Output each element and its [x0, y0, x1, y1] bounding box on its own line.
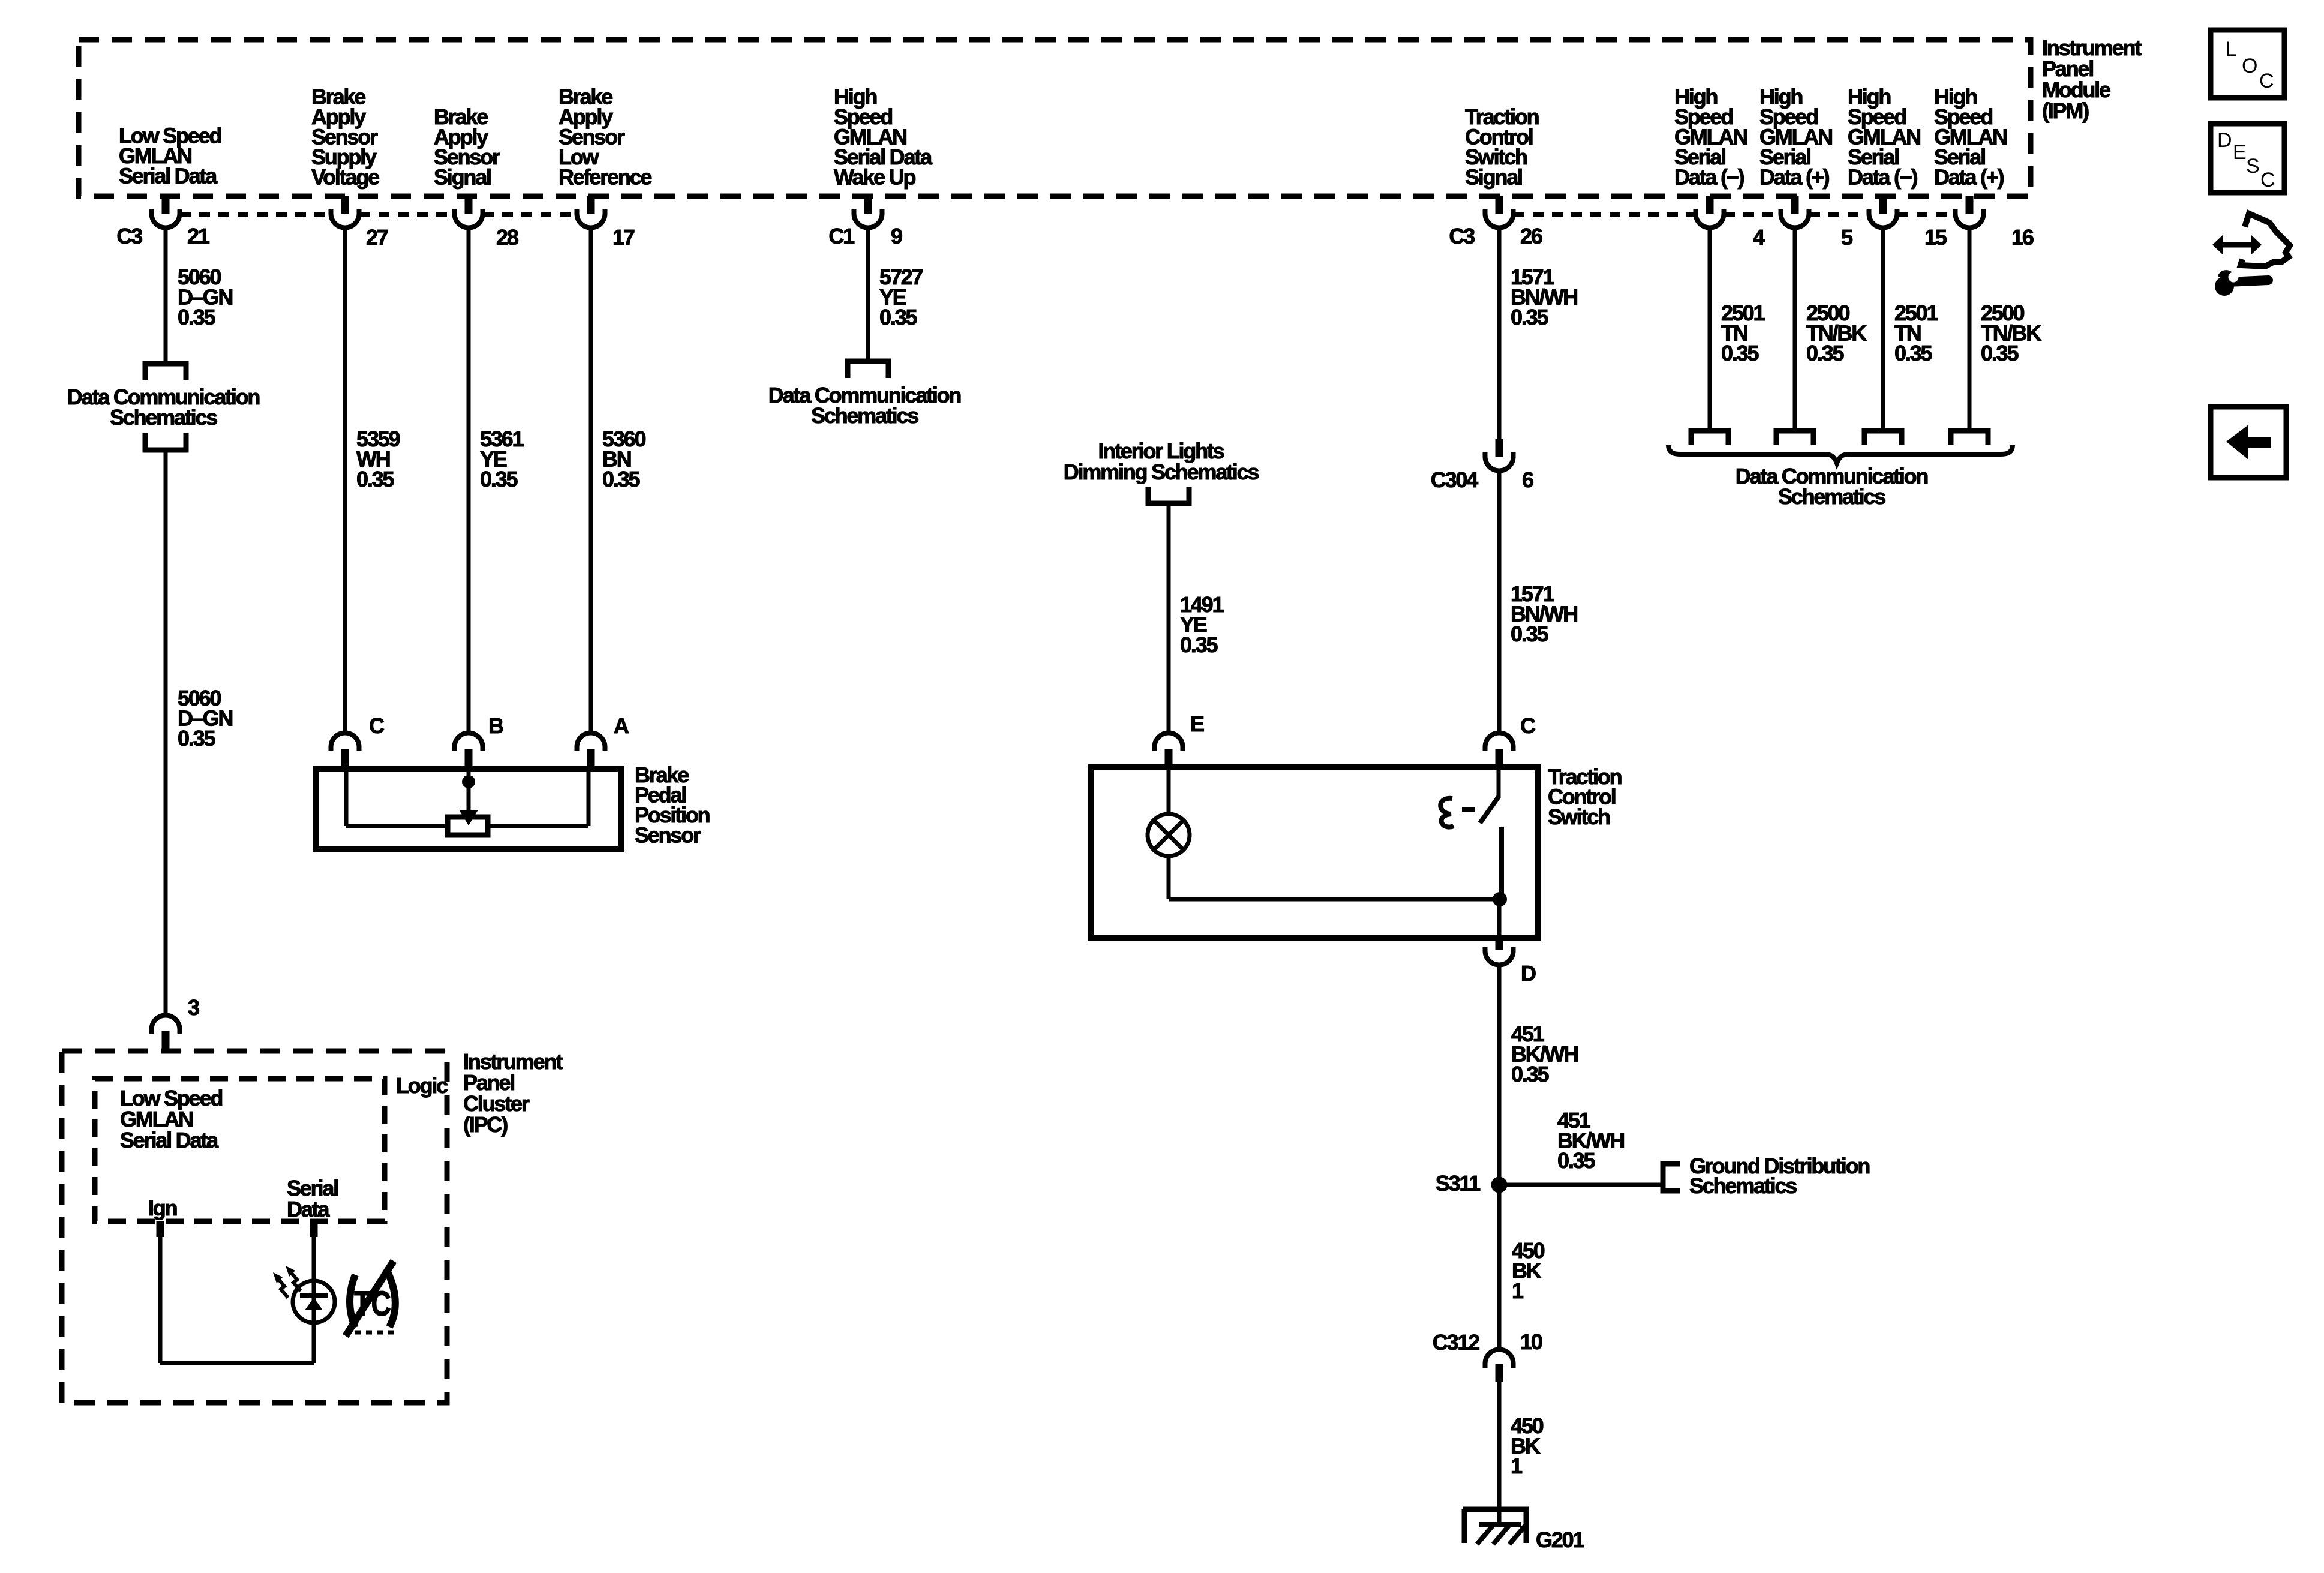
- ground symbol G201: [1463, 1507, 1529, 1512]
- off-page bracket (destination): [1951, 431, 1988, 445]
- LED indicator symbol: [293, 1281, 335, 1323]
- svg-text:Logic: Logic: [396, 1073, 448, 1098]
- svg-text:O: O: [2242, 55, 2257, 77]
- svg-text:0.35: 0.35: [1981, 341, 2019, 365]
- svg-text:C3: C3: [116, 224, 142, 248]
- svg-text:Signal: Signal: [1465, 165, 1522, 190]
- svg-text:0.35: 0.35: [178, 305, 215, 329]
- svg-text:Switch: Switch: [1548, 804, 1610, 829]
- svg-text:26: 26: [1520, 224, 1542, 248]
- svg-text:C: C: [2259, 70, 2274, 92]
- connector harness dotted line (C3 right section): [1514, 212, 1695, 217]
- svg-text:Voltage: Voltage: [311, 165, 379, 190]
- wire 5360 BN from pin 17 to BPPS pin A: [589, 228, 593, 734]
- logic box inside IPC, dashed outline: [95, 1079, 385, 1221]
- potentiometer resistive element: [448, 817, 488, 835]
- svg-text:Data (+): Data (+): [1759, 165, 1830, 190]
- wire 5060 D-GN from pin 21 to off-page reference: [164, 228, 168, 361]
- svg-text:21: 21: [187, 224, 210, 248]
- svg-text:Reference: Reference: [559, 165, 651, 190]
- logic pin Serial Data stub: [310, 1221, 318, 1237]
- switch fixed contact: [1499, 827, 1504, 899]
- off-page bracket (destination): [1864, 431, 1902, 445]
- off-page bracket (destination): [1776, 431, 1813, 445]
- svg-text:15: 15: [1924, 225, 1947, 250]
- connector pin C of switch: [1485, 733, 1514, 752]
- svg-text:(IPM): (IPM): [2042, 98, 2089, 123]
- wiper arrow: [459, 810, 478, 825]
- svg-text:Schematics: Schematics: [1778, 484, 1885, 509]
- svg-text:Schematics: Schematics: [110, 405, 217, 430]
- svg-text:0.35: 0.35: [1511, 622, 1548, 646]
- svg-text:5: 5: [1841, 225, 1853, 250]
- LED light arrows: [290, 1271, 301, 1291]
- splice S311: [1491, 1177, 1508, 1193]
- wire from Ign pin down: [158, 1237, 163, 1363]
- svg-text:Data: Data: [287, 1197, 330, 1221]
- connector pin C of BPPS: [331, 733, 359, 752]
- icon box: LOC: [2211, 30, 2284, 98]
- switch wire from pin C: [1497, 767, 1501, 798]
- wire from junction to pin D: [1497, 899, 1502, 938]
- wire 5060 D-GN continues to IPC pin 3: [164, 452, 168, 1016]
- svg-text:C312: C312: [1433, 1330, 1479, 1355]
- svg-text:D: D: [2217, 129, 2232, 152]
- svg-text:4: 4: [1753, 225, 1765, 250]
- svg-text:0.35: 0.35: [879, 305, 917, 329]
- svg-text:Data (+): Data (+): [1934, 165, 2004, 190]
- svg-text:0.35: 0.35: [480, 467, 518, 491]
- module box: Traction Control Switch: [1091, 767, 1538, 938]
- svg-text:9: 9: [891, 224, 902, 248]
- svg-text:0.35: 0.35: [1511, 1062, 1549, 1086]
- wire inside switch from pin E to lamp: [1167, 767, 1171, 816]
- module box: Instrument Panel Module (IPM), dashed outline: [79, 40, 2031, 196]
- connector pin 17 of IPM: [587, 196, 595, 214]
- junction dot inside switch: [1493, 892, 1507, 906]
- connector pin 27 of IPM: [341, 196, 349, 214]
- svg-text:16: 16: [2011, 225, 2034, 250]
- svg-text:27: 27: [366, 225, 388, 250]
- off-page reference bracket (destination): [848, 361, 888, 378]
- wire 450 BK from C312 to G201: [1497, 1382, 1502, 1524]
- svg-text:0.35: 0.35: [1557, 1148, 1595, 1173]
- connector pin D of switch: [1496, 938, 1503, 950]
- svg-text:E: E: [2233, 141, 2247, 164]
- brace grouping data communication wires: [1668, 445, 2013, 463]
- wire from lamp down and right to switch common: [1167, 854, 1171, 899]
- svg-text:Data (−): Data (−): [1848, 165, 1918, 190]
- wire 25xx TN from pin at x=3139 to data communication bus: [1881, 228, 1885, 428]
- svg-text:C3: C3: [1449, 224, 1475, 248]
- icon: data link connector symbol (arrow + vehicle + wrench): [2212, 235, 2262, 255]
- svg-text:28: 28: [496, 225, 518, 250]
- connector pin B of BPPS: [455, 733, 483, 752]
- icon box: DESC: [2211, 124, 2284, 193]
- module box: Instrument Panel Cluster (IPC), dashed outline: [62, 1051, 447, 1403]
- wire 1491 YE from dimming schematics to switch pin E: [1167, 506, 1171, 734]
- svg-text:C: C: [2260, 169, 2275, 191]
- wiper junction dot: [462, 775, 475, 788]
- svg-text:0.35: 0.35: [1806, 341, 1844, 365]
- connector harness dotted line (C3 left section): [180, 212, 331, 217]
- wire 5727 YE from pin 9 to off-page reference: [866, 228, 870, 359]
- svg-text:10: 10: [1520, 1329, 1542, 1354]
- svg-text:0.35: 0.35: [602, 467, 640, 491]
- svg-text:G201: G201: [1536, 1527, 1584, 1552]
- svg-text:0.35: 0.35: [1511, 305, 1548, 329]
- svg-text:Serial Data: Serial Data: [120, 1128, 219, 1152]
- module box: Brake Pedal Position Sensor: [316, 769, 621, 849]
- svg-text:C1: C1: [828, 224, 855, 248]
- connector C3 pin 26 of IPM: [1496, 196, 1503, 214]
- logic pin Ign stub: [157, 1221, 164, 1237]
- svg-text:1: 1: [1512, 1278, 1524, 1303]
- wire joining Ign and LED branch: [160, 1361, 314, 1365]
- svg-text:A: A: [614, 713, 629, 738]
- svg-text:B: B: [488, 713, 503, 738]
- svg-text:L: L: [2226, 38, 2237, 61]
- svg-text:0.35: 0.35: [1721, 341, 1759, 365]
- off-page source bracket: [1148, 487, 1189, 503]
- connector pin A of BPPS: [577, 733, 605, 752]
- svg-text:Schematics: Schematics: [1689, 1173, 1797, 1198]
- svg-text:Data (−): Data (−): [1674, 165, 1744, 190]
- potentiometer low ref wire inside BPPS: [587, 769, 591, 826]
- svg-text:Ign: Ign: [148, 1196, 177, 1220]
- svg-text:0.35: 0.35: [178, 726, 215, 751]
- connector pin 5 of IPM: [1791, 196, 1799, 214]
- connector C3 pin 21 of IPM: [162, 196, 170, 214]
- connector C1 pin 9 of IPM: [864, 196, 872, 214]
- svg-text:3: 3: [188, 995, 199, 1020]
- svg-text:0.35: 0.35: [1894, 341, 1932, 365]
- svg-text:C: C: [369, 713, 385, 738]
- connector pin E of switch: [1155, 733, 1183, 752]
- wire 1571 BN/WH from pin 26 to C304: [1497, 228, 1502, 439]
- icon box: back arrow: [2211, 407, 2286, 478]
- svg-text:C304: C304: [1431, 467, 1478, 492]
- svg-text:Sensor: Sensor: [635, 823, 701, 848]
- svg-text:Dimming Schematics: Dimming Schematics: [1064, 460, 1259, 484]
- off-page reference to Data Communication Schematics (top bracket): [145, 364, 186, 380]
- connector pin 15 of IPM: [1879, 196, 1887, 214]
- off-page reference (bottom bracket): [145, 433, 186, 450]
- connector pin 28 of IPM: [465, 196, 473, 214]
- branch wire 451 BK/WH to ground distribution: [1499, 1183, 1663, 1187]
- switch lever (open contact): [1480, 797, 1499, 823]
- wire 451 BK/WH from pin D to S311: [1497, 965, 1502, 1185]
- indicator lamp symbol (circle with X): [1148, 814, 1190, 856]
- svg-text:Serial Data: Serial Data: [119, 164, 218, 188]
- svg-text:17: 17: [612, 225, 635, 250]
- svg-text:S311: S311: [1436, 1171, 1481, 1196]
- actuator dashed link: [1462, 807, 1475, 812]
- wire 1571 BN/WH from C304 to switch pin C: [1497, 471, 1502, 734]
- wire 450 BK from S311 to C312: [1497, 1185, 1502, 1350]
- connector pin 3 of IPC: [152, 1015, 180, 1034]
- svg-text:6: 6: [1522, 467, 1533, 492]
- svg-text:0.35: 0.35: [1180, 632, 1218, 657]
- svg-text:0.35: 0.35: [356, 467, 394, 491]
- svg-text:E: E: [1190, 712, 1204, 736]
- connector C312 pin 10 (in-line): [1485, 1350, 1514, 1368]
- wiper wire from pin B: [467, 769, 471, 811]
- wire 5361 YE from pin 28 to BPPS pin B: [467, 228, 471, 734]
- svg-text:C: C: [1520, 713, 1536, 738]
- potentiometer supply wire inside BPPS: [344, 769, 349, 826]
- connector pin 16 of IPM: [1966, 196, 1974, 214]
- svg-text:(IPC): (IPC): [463, 1112, 508, 1137]
- svg-text:D: D: [1521, 961, 1536, 986]
- wire 25xx TN from pin at x=3283 to data communication bus: [1968, 228, 1972, 428]
- wire 5359 WH from pin 27 to BPPS pin C: [343, 228, 347, 734]
- potentiometer element wire: [346, 824, 448, 828]
- off-page bracket (destination): [1691, 431, 1728, 445]
- svg-text:1: 1: [1511, 1454, 1523, 1478]
- connector pin 4 of IPM: [1706, 196, 1714, 214]
- wire from Serial Data pin through LED: [312, 1237, 316, 1363]
- switch actuator symbol (momentary): [1440, 798, 1454, 827]
- svg-text:S: S: [2246, 155, 2260, 178]
- svg-text:Schematics: Schematics: [811, 403, 918, 428]
- svg-text:Signal: Signal: [434, 165, 491, 190]
- wire 25xx TN from pin at x=2850 to data communication bus: [1708, 228, 1712, 428]
- svg-text:Wake Up: Wake Up: [834, 165, 916, 190]
- connector C304 pin 6 (in-line): [1496, 439, 1503, 457]
- off-page bracket: Ground Distribution Schematics: [1663, 1164, 1680, 1191]
- wire 25xx TN from pin at x=2992 to data communication bus: [1793, 228, 1797, 428]
